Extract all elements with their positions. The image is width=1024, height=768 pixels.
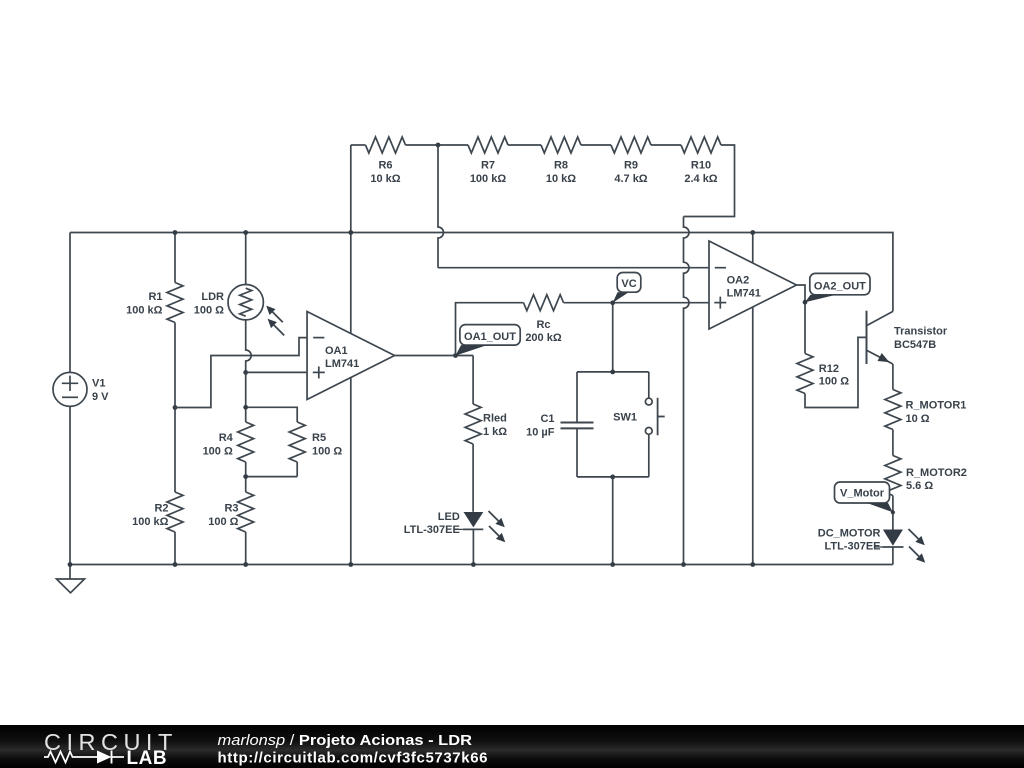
svg-text:LTL-307EE: LTL-307EE (404, 524, 460, 536)
svg-text:R_MOTOR1: R_MOTOR1 (906, 400, 967, 412)
svg-text:10 kΩ: 10 kΩ (546, 173, 576, 185)
svg-text:R8: R8 (554, 160, 568, 172)
svg-text:100 kΩ: 100 kΩ (126, 305, 163, 317)
svg-text:R_MOTOR2: R_MOTOR2 (906, 467, 967, 479)
svg-text:LED: LED (438, 511, 460, 523)
svg-text:9 V: 9 V (92, 391, 109, 403)
svg-text:SW1: SW1 (613, 412, 637, 424)
svg-text:200 kΩ: 200 kΩ (525, 332, 562, 344)
svg-text:100 Ω: 100 Ω (194, 305, 224, 317)
svg-text:LAB: LAB (127, 748, 168, 768)
svg-text:Transistor: Transistor (894, 326, 948, 338)
svg-text:LTL-307EE: LTL-307EE (824, 541, 880, 553)
svg-text:10 kΩ: 10 kΩ (370, 173, 400, 185)
svg-text:V1: V1 (92, 378, 105, 390)
svg-text:R12: R12 (819, 363, 839, 375)
svg-text:DC_MOTOR: DC_MOTOR (818, 527, 881, 539)
svg-text:100 Ω: 100 Ω (312, 446, 342, 458)
svg-text:100 kΩ: 100 kΩ (470, 173, 507, 185)
svg-text:100 Ω: 100 Ω (819, 376, 849, 388)
svg-text:OA2_OUT: OA2_OUT (814, 281, 866, 293)
svg-text:Rc: Rc (536, 319, 550, 331)
svg-text:R7: R7 (481, 160, 495, 172)
svg-text:100 Ω: 100 Ω (208, 516, 238, 528)
svg-text:10 µF: 10 µF (526, 426, 555, 438)
svg-text:10 Ω: 10 Ω (906, 413, 930, 425)
svg-text:5.6 Ω: 5.6 Ω (906, 480, 933, 492)
svg-text:R4: R4 (219, 432, 234, 444)
svg-text:R1: R1 (148, 291, 162, 303)
svg-text:R6: R6 (378, 160, 392, 172)
svg-text:R9: R9 (624, 160, 638, 172)
svg-text:4.7 kΩ: 4.7 kΩ (614, 173, 647, 185)
svg-text:marlonsp / Projeto Acionas - L: marlonsp / Projeto Acionas - LDR (218, 732, 473, 749)
svg-text:VC: VC (621, 278, 636, 290)
svg-text:LM741: LM741 (325, 358, 359, 370)
svg-text:LDR: LDR (201, 291, 224, 303)
svg-text:R3: R3 (224, 503, 238, 515)
svg-text:R2: R2 (154, 503, 168, 515)
svg-text:R10: R10 (691, 160, 711, 172)
svg-text:1 kΩ: 1 kΩ (483, 426, 507, 438)
svg-text:OA1: OA1 (325, 345, 348, 357)
svg-text:C1: C1 (540, 413, 554, 425)
svg-text:V_Motor: V_Motor (840, 488, 885, 500)
svg-text:OA2: OA2 (727, 274, 750, 286)
svg-text:BC547B: BC547B (894, 339, 936, 351)
svg-text:100 kΩ: 100 kΩ (132, 516, 169, 528)
svg-text:Rled: Rled (483, 413, 507, 425)
svg-text:R5: R5 (312, 432, 326, 444)
svg-text:2.4 kΩ: 2.4 kΩ (684, 173, 717, 185)
svg-text:100 Ω: 100 Ω (203, 446, 233, 458)
svg-text:OA1_OUT: OA1_OUT (464, 331, 516, 343)
svg-text:http://circuitlab.com/cvf3fc57: http://circuitlab.com/cvf3fc5737k66 (218, 750, 488, 767)
svg-text:LM741: LM741 (727, 287, 761, 299)
